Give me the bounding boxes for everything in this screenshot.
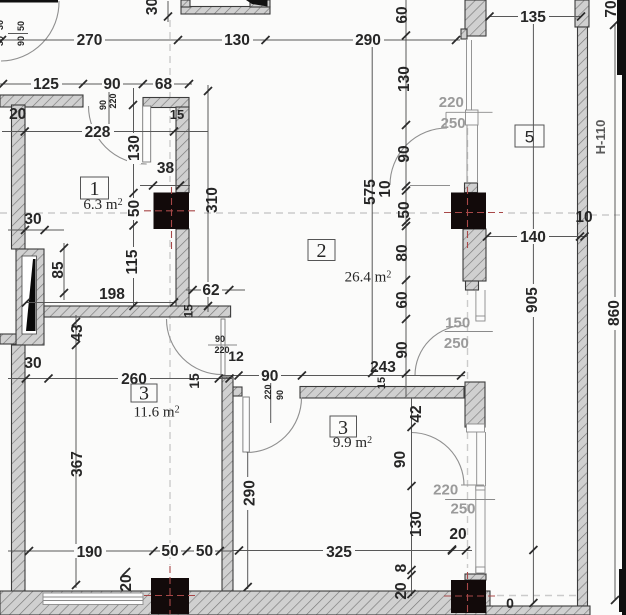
svg-text:50: 50: [396, 201, 413, 218]
svg-text:5: 5: [525, 128, 534, 147]
svg-text:30: 30: [0, 36, 5, 46]
svg-text:8: 8: [393, 563, 410, 572]
svg-text:11.6 m2: 11.6 m2: [133, 405, 179, 421]
svg-text:243: 243: [370, 359, 396, 376]
svg-text:9.9 m2: 9.9 m2: [333, 435, 372, 451]
svg-text:90: 90: [261, 368, 278, 385]
svg-text:150: 150: [445, 314, 470, 331]
svg-text:50: 50: [16, 21, 26, 31]
svg-text:250: 250: [441, 115, 466, 132]
svg-text:220: 220: [108, 93, 118, 108]
svg-text:135: 135: [520, 9, 546, 26]
svg-text:860: 860: [606, 300, 623, 326]
svg-text:15: 15: [186, 373, 202, 389]
svg-text:250: 250: [450, 501, 475, 518]
svg-text:80: 80: [394, 244, 411, 261]
svg-text:130: 130: [408, 511, 425, 537]
svg-text:50: 50: [126, 200, 143, 217]
svg-text:6.3 m2: 6.3 m2: [83, 197, 122, 213]
svg-text:310: 310: [204, 187, 221, 213]
svg-text:90: 90: [103, 76, 120, 93]
svg-text:30: 30: [144, 0, 161, 15]
svg-text:90: 90: [16, 36, 26, 46]
svg-text:50: 50: [196, 543, 213, 560]
svg-text:190: 190: [77, 544, 103, 561]
svg-text:130: 130: [396, 66, 413, 92]
svg-text:90: 90: [394, 341, 411, 358]
svg-text:270: 270: [77, 32, 103, 49]
svg-text:2: 2: [317, 240, 327, 262]
svg-text:130: 130: [126, 135, 143, 161]
svg-text:90: 90: [98, 100, 108, 110]
svg-text:68: 68: [155, 76, 173, 93]
svg-text:115: 115: [124, 249, 141, 274]
svg-text:90: 90: [275, 390, 285, 400]
svg-text:220: 220: [433, 482, 458, 499]
svg-text:20: 20: [9, 106, 26, 123]
svg-text:62: 62: [202, 282, 219, 299]
svg-text:20: 20: [449, 526, 466, 543]
svg-text:85: 85: [50, 261, 67, 279]
svg-text:90: 90: [392, 451, 409, 468]
svg-text:198: 198: [99, 286, 125, 303]
svg-text:90: 90: [215, 334, 225, 344]
svg-text:3: 3: [139, 383, 149, 405]
svg-text:12: 12: [228, 348, 244, 364]
svg-text:0: 0: [506, 595, 514, 611]
svg-text:125: 125: [33, 76, 59, 93]
svg-text:30: 30: [24, 355, 41, 372]
svg-text:905: 905: [524, 287, 541, 313]
svg-text:290: 290: [355, 32, 381, 49]
svg-text:42: 42: [408, 405, 425, 422]
svg-text:220: 220: [439, 94, 464, 111]
svg-text:38: 38: [157, 160, 175, 177]
svg-text:130: 130: [224, 32, 250, 49]
svg-text:15: 15: [182, 304, 196, 318]
svg-text:10: 10: [377, 180, 394, 197]
svg-text:220: 220: [214, 345, 229, 355]
svg-text:325: 325: [326, 544, 352, 561]
svg-text:90: 90: [396, 145, 413, 162]
svg-text:60: 60: [394, 291, 411, 308]
svg-text:250: 250: [444, 335, 469, 352]
svg-text:220: 220: [263, 384, 273, 399]
svg-text:50: 50: [161, 543, 178, 560]
svg-text:140: 140: [520, 229, 546, 246]
svg-text:15: 15: [170, 107, 184, 122]
svg-text:43: 43: [69, 324, 86, 342]
svg-text:20: 20: [118, 574, 135, 591]
svg-text:26.4 m2: 26.4 m2: [345, 270, 392, 286]
svg-text:60: 60: [394, 6, 411, 23]
svg-text:367: 367: [69, 451, 86, 477]
svg-text:15: 15: [376, 377, 388, 389]
svg-text:228: 228: [85, 124, 111, 141]
svg-text:10: 10: [575, 209, 592, 226]
svg-text:30: 30: [0, 20, 5, 30]
svg-text:30: 30: [24, 211, 41, 228]
svg-text:290: 290: [242, 480, 259, 506]
svg-text:20: 20: [393, 582, 410, 599]
svg-text:H-110: H-110: [593, 120, 608, 155]
